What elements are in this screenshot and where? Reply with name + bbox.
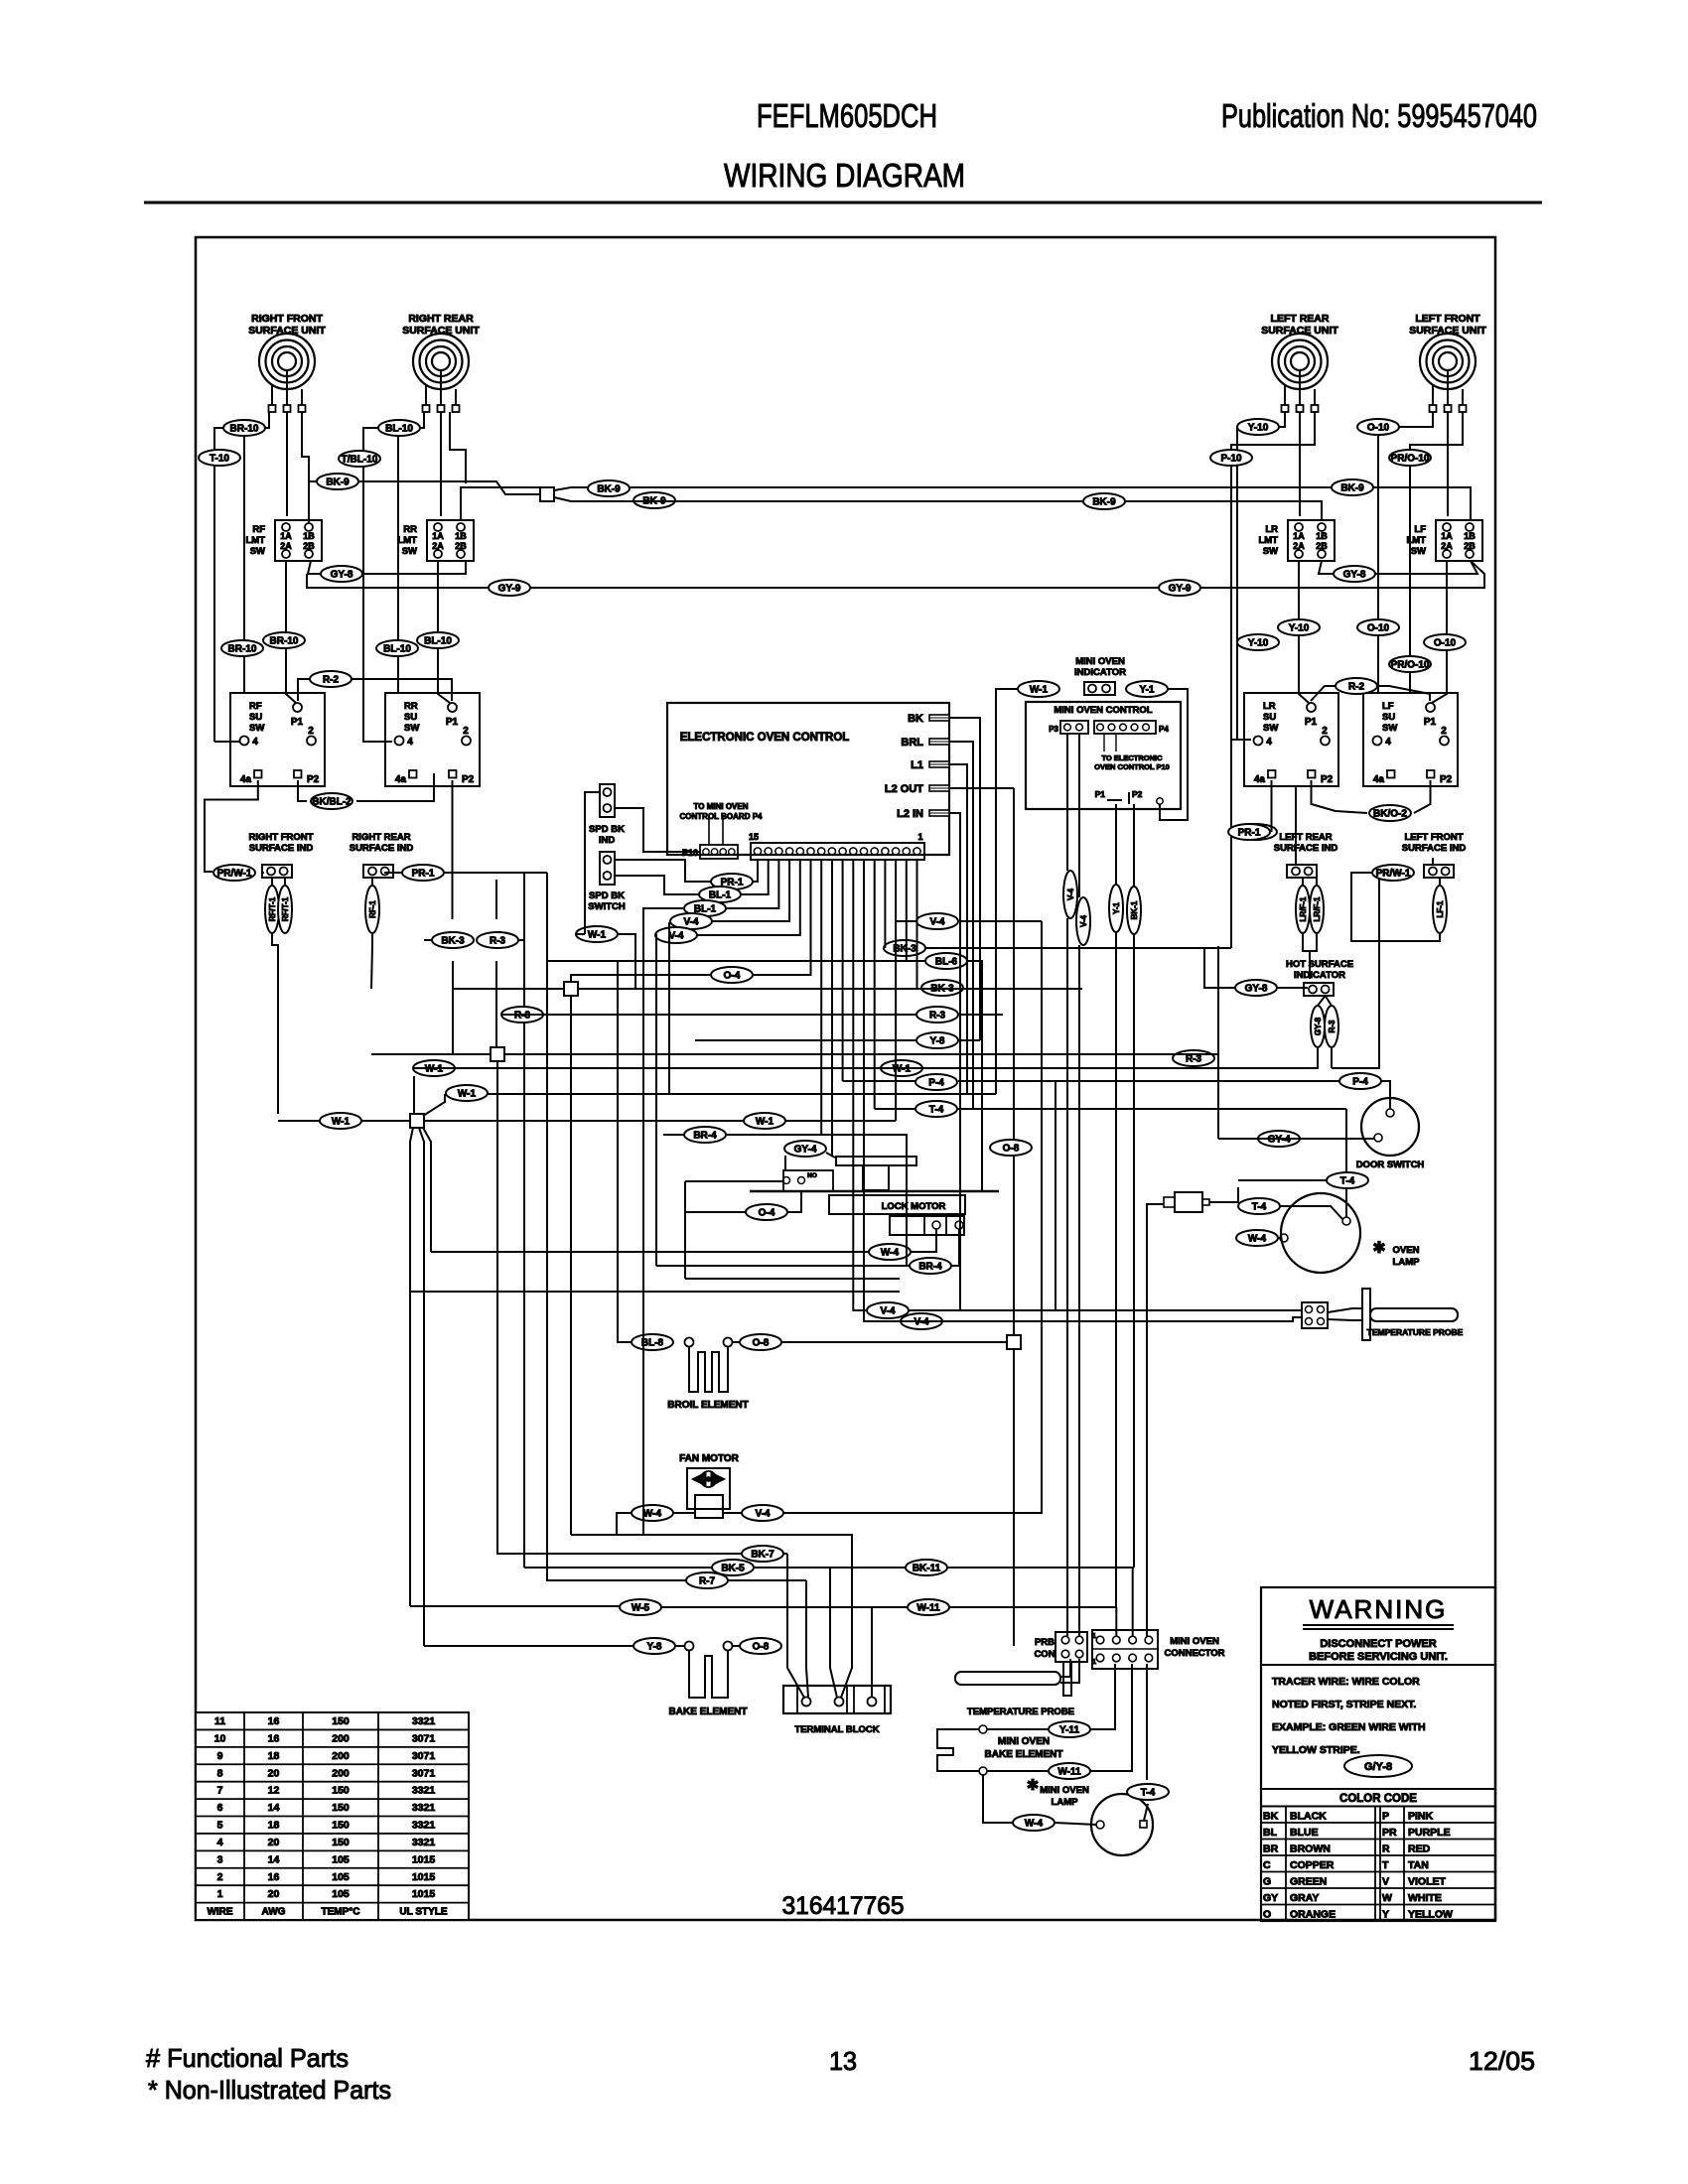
svg-text:# Functional Parts: # Functional Parts [146, 2043, 349, 2073]
svg-text:AWG: AWG [262, 1907, 286, 1918]
spd bk ind connector [589, 784, 625, 846]
wire label PR-1 [711, 874, 753, 889]
wire label BK-3 [884, 940, 925, 956]
svg-text:W-1: W-1 [588, 930, 607, 941]
svg-text:3071: 3071 [412, 1750, 436, 1762]
svg-text:LR/F-1: LR/F-1 [1313, 896, 1322, 921]
svg-text:BAKE ELEMENT: BAKE ELEMENT [669, 1706, 748, 1717]
svg-text:4a: 4a [395, 774, 407, 785]
wire label PR/O-10 [1389, 450, 1431, 466]
svg-text:1A: 1A [280, 531, 292, 541]
wire PR/W-1 to RF ind [262, 872, 264, 874]
svg-text:W-1: W-1 [756, 1117, 774, 1128]
wire label Y-10 [1237, 419, 1279, 435]
wire BL-6 left riser to broil [617, 961, 619, 1335]
svg-text:HOT SURFACE: HOT SURFACE [1286, 959, 1353, 970]
svg-text:O-4: O-4 [724, 971, 741, 982]
svg-text:V-4: V-4 [683, 917, 698, 928]
svg-text:8: 8 [217, 1767, 223, 1779]
svg-text:L2 OUT: L2 OUT [885, 783, 923, 795]
svg-text:18: 18 [268, 1820, 280, 1832]
wire label BR-10 [221, 640, 263, 656]
wire PR-1 bus from RR ind [384, 872, 403, 874]
wire label W-1 [413, 1060, 455, 1076]
svg-text:RF: RF [252, 524, 265, 535]
wire label Y-11 [1049, 1721, 1090, 1737]
svg-text:SU: SU [249, 712, 262, 723]
svg-text:P4: P4 [1159, 725, 1169, 734]
wire W-4 from lock motor [911, 1229, 936, 1252]
wire W-4 left leg [617, 1513, 632, 1535]
svg-text:P: P [1382, 1811, 1389, 1823]
surface switch LF SU SW [1363, 693, 1458, 786]
svg-text:16: 16 [268, 1871, 280, 1883]
svg-text:W: W [1382, 1892, 1392, 1904]
svg-text:1: 1 [917, 832, 922, 842]
svg-text:YELLOW STRIPE.: YELLOW STRIPE. [1272, 1744, 1360, 1756]
wire label BK-3 [432, 932, 474, 948]
svg-text:Y-8: Y-8 [646, 1642, 661, 1653]
wire label BR-10 [263, 632, 305, 648]
svg-text:12/05: 12/05 [1469, 2046, 1535, 2076]
svg-text:1015: 1015 [412, 1871, 436, 1883]
svg-text:R-3: R-3 [1328, 1020, 1336, 1032]
svg-text:SURFACE UNIT: SURFACE UNIT [248, 325, 326, 337]
wire bus y928 V-4 [958, 920, 1042, 922]
warning box [1261, 1587, 1495, 1921]
wire bus y1301 [410, 1291, 900, 1293]
wire label R-3 [501, 1007, 543, 1023]
svg-text:O-10: O-10 [1367, 623, 1390, 634]
svg-text:1B: 1B [1316, 531, 1328, 541]
svg-text:W-11: W-11 [916, 1603, 940, 1614]
svg-text:4: 4 [252, 737, 258, 748]
lock motor [750, 1157, 999, 1235]
wire label PR-1 [1228, 824, 1270, 840]
junction center [564, 982, 578, 996]
wire label W-4 [1236, 1230, 1278, 1246]
svg-text:VIOLET: VIOLET [1408, 1876, 1447, 1888]
wire connector top feed 3 [1132, 1568, 1134, 1636]
svg-text:MINI OVEN CONTROL: MINI OVEN CONTROL [1054, 705, 1152, 716]
svg-text:PRB: PRB [1035, 1637, 1055, 1648]
svg-text:TO MINI OVEN: TO MINI OVEN [694, 802, 749, 811]
limit switch RF LMT SW [245, 520, 322, 561]
thermal fuse [1164, 1192, 1209, 1212]
wire LR SU SW 4a to PR-1 [1271, 780, 1273, 832]
svg-text:2A: 2A [432, 541, 444, 551]
svg-text:P-4: P-4 [1352, 1077, 1368, 1088]
svg-text:200: 200 [332, 1767, 350, 1779]
mini oven temperature probe [955, 1662, 1074, 1717]
wire label R-3 [477, 932, 518, 948]
svg-text:O-8: O-8 [1003, 1144, 1020, 1155]
svg-text:2: 2 [463, 726, 469, 737]
svg-text:DOOR SWITCH: DOOR SWITCH [1356, 1160, 1425, 1170]
svg-text:SURFACE IND: SURFACE IND [1402, 843, 1467, 854]
svg-text:PINK: PINK [1408, 1811, 1434, 1823]
wire GY-8 local bus RF-RR [308, 561, 321, 574]
svg-text:316417765: 316417765 [782, 1892, 905, 1920]
svg-text:PR/O-10: PR/O-10 [1391, 660, 1430, 671]
svg-text:LEFT REAR: LEFT REAR [1271, 313, 1330, 325]
wire label T-10 [199, 450, 240, 466]
svg-text:LEFT FRONT: LEFT FRONT [1415, 313, 1480, 325]
wire LF terminal2 down [1447, 412, 1449, 516]
wire RR terminal1 to BL-10 run [363, 412, 424, 742]
wire label T-4 [915, 1101, 957, 1117]
prb con [1034, 1632, 1087, 1662]
wire label BK-9 [1332, 479, 1373, 495]
svg-text:R-2: R-2 [323, 675, 340, 686]
svg-text:SURFACE UNIT: SURFACE UNIT [402, 325, 480, 337]
wire EOC BRL pin run [949, 742, 973, 1109]
svg-text:R-2: R-2 [1348, 682, 1365, 693]
svg-text:P2: P2 [1132, 789, 1143, 799]
wire O-4 lower to lock motor contact [685, 1211, 749, 1213]
svg-text:NOTED FIRST, STRIPE NEXT.: NOTED FIRST, STRIPE NEXT. [1272, 1699, 1416, 1710]
svg-text:L1: L1 [911, 759, 923, 771]
wire label BK-1 (vertical) [1127, 887, 1141, 934]
wire label V-4 (vertical) [1063, 871, 1077, 918]
wire T-4 into mini lamp [1144, 1804, 1148, 1821]
wire RR LMT SW 2A down to RR SU SW P1 [438, 561, 450, 703]
svg-text:P1: P1 [291, 717, 304, 728]
wire label R-2 [1336, 678, 1377, 694]
svg-text:20: 20 [268, 1888, 280, 1900]
svg-text:RIGHT REAR: RIGHT REAR [408, 313, 474, 325]
svg-text:SW: SW [1263, 723, 1278, 734]
svg-text:GREEN: GREEN [1290, 1876, 1327, 1888]
wire LF LMT 2A down [1432, 561, 1447, 703]
surface unit RR [402, 313, 480, 412]
svg-text:BK-5: BK-5 [721, 1564, 745, 1574]
wire label GY-8 [1334, 566, 1375, 582]
svg-text:O-10: O-10 [1434, 638, 1457, 649]
svg-text:W-11: W-11 [1057, 1767, 1081, 1778]
svg-text:SPD BK: SPD BK [589, 890, 625, 901]
svg-text:FEFLM605DCH: FEFLM605DCH [757, 97, 937, 134]
svg-text:T/BL-10: T/BL-10 [342, 455, 378, 466]
wire label V-4 [742, 1505, 783, 1521]
wire P-4 to door switch [1381, 1081, 1390, 1109]
svg-text:GY-8: GY-8 [1314, 1017, 1323, 1035]
svg-text:TEMPERATURE PROBE: TEMPERATURE PROBE [1367, 1327, 1464, 1337]
svg-text:RF/T-1: RF/T-1 [281, 896, 290, 921]
svg-text:150: 150 [332, 1785, 350, 1797]
wire label O-10 [1357, 619, 1399, 635]
wire label Y-1 (vertical) [1109, 885, 1123, 932]
svg-text:P1: P1 [1305, 717, 1318, 728]
svg-text:Y-10: Y-10 [1248, 423, 1269, 434]
svg-text:10: 10 [214, 1732, 226, 1744]
broil element [667, 1338, 748, 1412]
svg-text:1B: 1B [1464, 531, 1476, 541]
wire NO box left feed [685, 1180, 783, 1182]
svg-text:INDICATOR: INDICATOR [1074, 667, 1126, 678]
wire label RF/T-1 (vertical) [265, 886, 279, 933]
svg-text:PR-1: PR-1 [1238, 828, 1261, 839]
svg-text:2A: 2A [1441, 541, 1453, 551]
wire EOC BK pin run [949, 718, 980, 1040]
svg-text:W-5: W-5 [632, 1603, 650, 1614]
svg-text:BR-4: BR-4 [693, 1131, 717, 1142]
svg-text:* Non-Illustrated Parts: * Non-Illustrated Parts [148, 2075, 391, 2105]
svg-text:105: 105 [332, 1871, 350, 1883]
lock motor switch contacts [783, 1170, 833, 1191]
svg-text:RED: RED [1408, 1843, 1431, 1855]
wire label BK-11 [906, 1560, 947, 1575]
svg-text:9: 9 [217, 1750, 223, 1762]
limit switch RR LMT SW [397, 520, 474, 561]
svg-text:RF: RF [249, 701, 262, 712]
wire label W-4 [1013, 1815, 1055, 1831]
svg-text:GY-8: GY-8 [1245, 984, 1268, 995]
svg-text:CONNECTOR: CONNECTOR [1164, 1648, 1224, 1659]
svg-text:11: 11 [214, 1715, 225, 1727]
wire label LF-1 (vertical) [1433, 886, 1447, 933]
wire label V-4 [670, 913, 712, 929]
svg-text:200: 200 [332, 1750, 350, 1762]
wire R-2 right run [1311, 686, 1430, 701]
wire RR LMT 1B to junction [461, 487, 540, 520]
color code table [1261, 1789, 1495, 1921]
wire label RF/T-1 (vertical) [278, 886, 292, 933]
wire W-4 to oven lamp [1238, 1237, 1280, 1239]
svg-text:LR: LR [1265, 524, 1278, 535]
svg-text:BL-1: BL-1 [709, 890, 732, 901]
surface unit LF [1409, 313, 1486, 412]
svg-text:P1: P1 [446, 717, 459, 728]
svg-text:SW: SW [1382, 723, 1397, 734]
wire label BL-6 [925, 953, 967, 969]
junction left [491, 1047, 504, 1061]
wire label O-8 [990, 1140, 1032, 1156]
svg-text:L2 IN: L2 IN [897, 808, 923, 820]
svg-text:WIRING DIAGRAM: WIRING DIAGRAM [724, 157, 965, 194]
wire label R-2 [310, 671, 352, 687]
left rear surface ind [1274, 832, 1338, 878]
wire bus y968 BL-6 [547, 960, 925, 962]
wire label BK-3 [921, 980, 963, 996]
wire LR LMT 2A down to LR SU SW [1299, 561, 1309, 703]
wire label BK-5 [712, 1560, 754, 1575]
svg-text:SW: SW [250, 546, 265, 557]
svg-text:YELLOW: YELLOW [1408, 1909, 1453, 1921]
wire label BL-10 [417, 632, 459, 648]
wire W-11 riser to connector [1090, 1664, 1132, 1771]
wire RR terminal2 down to RR LMT SW 1A [440, 412, 442, 516]
wire P3 left down cont [1066, 918, 1068, 1636]
junction Y left [410, 1114, 424, 1128]
wire LF terminal3 PR/O-10 run [1410, 412, 1463, 694]
svg-text:P2: P2 [1440, 774, 1453, 785]
svg-text:TEMPERATURE PROBE: TEMPERATURE PROBE [967, 1706, 1074, 1717]
wire label BK/BL-2 [311, 793, 352, 809]
fan motor [679, 1453, 740, 1518]
wire label BR-4 [684, 1127, 726, 1143]
svg-text:BROWN: BROWN [1290, 1843, 1331, 1855]
svg-text:W-4: W-4 [643, 1509, 662, 1520]
svg-text:OVEN CONTROL P10: OVEN CONTROL P10 [1094, 762, 1170, 771]
svg-text:RIGHT REAR: RIGHT REAR [352, 832, 410, 843]
wire label RF-1 (vertical) [365, 886, 379, 933]
wire P1 down [1115, 804, 1117, 885]
svg-text:LEFT FRONT: LEFT FRONT [1404, 832, 1463, 843]
wire label BL-10 [378, 420, 420, 436]
svg-text:LMT: LMT [1258, 535, 1278, 546]
wire label PR/W-1 [1372, 865, 1414, 881]
wire label GY-8 [1235, 980, 1277, 996]
svg-text:G: G [1263, 1876, 1271, 1888]
wire label W-1 [320, 1113, 361, 1129]
wire label Y-10 [1278, 619, 1320, 635]
wire mini bake top [987, 1728, 1049, 1730]
wire bus y1129 W-1 [278, 1120, 320, 1122]
svg-text:Y-1: Y-1 [1112, 901, 1121, 914]
svg-text:WARNING: WARNING [1310, 1594, 1448, 1624]
svg-text:14: 14 [268, 1802, 280, 1814]
wire mini oven control pin stub [1160, 689, 1188, 820]
svg-text:3321: 3321 [412, 1715, 436, 1727]
svg-text:BL-6: BL-6 [935, 957, 958, 968]
svg-text:2: 2 [1322, 726, 1328, 737]
wire T-4 left run to fuse [1238, 1179, 1327, 1181]
wire label BL-10 [376, 640, 418, 656]
right rear surface ind [350, 832, 414, 878]
svg-text:BLACK: BLACK [1290, 1811, 1327, 1823]
svg-text:RF-1: RF-1 [368, 900, 377, 918]
svg-text:BK-7: BK-7 [751, 1550, 774, 1561]
svg-text:SURFACE IND: SURFACE IND [1274, 843, 1338, 854]
wire label BK-9 [633, 492, 675, 508]
wire label P-4 [915, 1074, 957, 1090]
svg-text:TERMINAL BLOCK: TERMINAL BLOCK [794, 1724, 879, 1735]
svg-text:3321: 3321 [412, 1820, 436, 1832]
svg-text:2B: 2B [1316, 541, 1328, 551]
svg-text:PR/W-1: PR/W-1 [1376, 869, 1411, 880]
svg-text:R-3: R-3 [929, 1011, 946, 1022]
wire T-4 into oven lamp [1345, 1109, 1347, 1172]
svg-text:LR/F-1: LR/F-1 [1299, 896, 1308, 921]
svg-text:LR: LR [1263, 701, 1276, 712]
svg-text:BL-8: BL-8 [641, 1338, 664, 1349]
svg-text:GRAY: GRAY [1290, 1892, 1319, 1904]
wire label PR-1 [1235, 824, 1277, 840]
wire L2 OUT riser to junction [1013, 788, 1015, 1335]
svg-text:Y: Y [1382, 1909, 1389, 1921]
wire gauge table [196, 1712, 469, 1920]
svg-text:2: 2 [1441, 726, 1447, 737]
wire GY-8 short bus LR-LF [1319, 561, 1334, 574]
svg-text:C: C [1263, 1859, 1271, 1871]
wire ovals line y947 [424, 939, 432, 941]
wire BL-10 vertical [397, 436, 399, 694]
mini oven control [1026, 702, 1181, 809]
svg-text:TO ELECTRONIC: TO ELECTRONIC [1101, 753, 1163, 762]
svg-text:V-4: V-4 [1066, 887, 1075, 900]
wire label LR/F-1 (vertical) [1310, 886, 1324, 933]
svg-text:W-1: W-1 [332, 1117, 351, 1128]
wire bus y1143 BR-4 [663, 1134, 684, 1136]
svg-text:R-7: R-7 [699, 1576, 716, 1587]
svg-text:SURFACE UNIT: SURFACE UNIT [1261, 325, 1338, 337]
wire label Y-10 [1237, 634, 1279, 650]
wires into terminal block [787, 1554, 804, 1698]
wire RF ind vovals legs [271, 879, 273, 886]
wire label W-1 [576, 926, 618, 942]
wire label BK-9 [588, 480, 630, 496]
svg-text:T-4: T-4 [1141, 1788, 1156, 1799]
svg-text:R: R [1382, 1843, 1390, 1855]
svg-text:O-8: O-8 [753, 1642, 770, 1653]
svg-text:LMT: LMT [245, 535, 265, 546]
svg-text:IND: IND [599, 835, 616, 846]
svg-text:MINI OVEN: MINI OVEN [1075, 656, 1125, 667]
wire BK-9 upper run to LF LMT SW [554, 487, 1471, 520]
svg-text:BK-9: BK-9 [1340, 483, 1364, 494]
limit switch LR LMT SW [1258, 520, 1335, 561]
electronic oven control [667, 703, 949, 860]
mini oven lamp [1027, 1777, 1153, 1855]
svg-text:BL: BL [1263, 1827, 1278, 1839]
wire label W-1 [744, 1113, 785, 1129]
svg-text:SURFACE IND: SURFACE IND [249, 843, 314, 854]
wire label R-7 [686, 1572, 728, 1588]
wire label T-4 [1127, 1784, 1169, 1800]
svg-text:GY-9: GY-9 [498, 584, 521, 595]
svg-text:Y-10: Y-10 [1248, 638, 1269, 649]
svg-text:Y-1: Y-1 [1139, 685, 1154, 696]
wire LR terminal2 down [1299, 412, 1301, 516]
svg-text:GY: GY [1263, 1892, 1278, 1904]
svg-text:P1: P1 [1095, 789, 1106, 799]
svg-text:15: 15 [749, 832, 759, 842]
wire label O-8 [740, 1334, 781, 1350]
svg-text:1015: 1015 [412, 1888, 436, 1900]
wire label Y-1 [1126, 681, 1168, 697]
wire label Y-8 [633, 1638, 675, 1654]
svg-text:1015: 1015 [412, 1853, 436, 1865]
wire bus y996 right [578, 988, 1082, 990]
svg-text:BL-10: BL-10 [424, 636, 452, 647]
left front surface ind [1402, 832, 1467, 878]
svg-text:T-4: T-4 [1252, 1202, 1267, 1213]
wire RF 4a to PR/W-1 indicator [205, 780, 258, 872]
svg-text:RIGHT FRONT: RIGHT FRONT [251, 313, 323, 325]
svg-text:150: 150 [332, 1715, 350, 1727]
svg-text:W-4: W-4 [1248, 1234, 1267, 1245]
svg-text:✱: ✱ [1027, 1777, 1040, 1794]
wire bus y1089 P-4 [843, 1080, 915, 1082]
svg-text:14: 14 [268, 1853, 280, 1865]
wire label BL-1 [684, 900, 726, 916]
wire W-4 to mini lamp [983, 1775, 1013, 1823]
svg-text:V: V [1382, 1876, 1389, 1888]
svg-text:1: 1 [1092, 1633, 1096, 1640]
wire label LR/F-1 (vertical) [1296, 886, 1310, 933]
wire P3 right down [1078, 734, 1080, 897]
svg-text:105: 105 [332, 1853, 350, 1865]
svg-text:LAMP: LAMP [1052, 1797, 1079, 1808]
wire label BL-1 [699, 887, 741, 902]
wire bus y1619 W-5 W-11 [410, 1605, 620, 1607]
surface switch RF SU SW [230, 693, 325, 786]
wire label V-4 (vertical) [1076, 897, 1090, 945]
svg-text:R-3: R-3 [1186, 1054, 1202, 1065]
wire fuse left down to mini oven connector [1147, 1204, 1164, 1636]
junction square right [1007, 1335, 1021, 1349]
